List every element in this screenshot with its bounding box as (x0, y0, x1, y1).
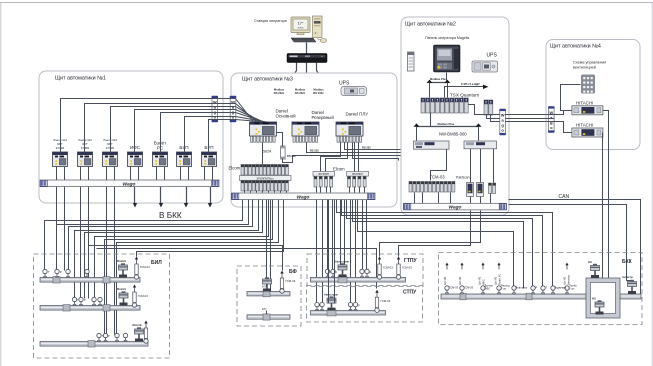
svg-text:Modbus Plus: Modbus Plus (430, 77, 447, 81)
PakScan unit 1 (467, 183, 474, 197)
svg-text:Основной: Основной (276, 114, 297, 119)
bridge NW-BM85 left (414, 141, 450, 149)
svg-text:ФГУ: ФГУ (262, 308, 267, 311)
wires terminals to bus panel2 (415, 193, 491, 204)
wire Magelis to MBP trunk (446, 73, 448, 81)
sensors pipe БИЛ2 (72, 297, 76, 305)
svg-text:Щит автоматики №2: Щит автоматики №2 (405, 22, 456, 28)
wire bundle long runs to БКК sensors (337, 200, 553, 289)
dashed box СТПУ (307, 286, 423, 323)
sensors pipe БИЛ3 (97, 333, 101, 341)
svg-text:ЭЛОК: ЭЛОК (298, 28, 305, 30)
svg-text:К ХПч-5 в ЦДУ: К ХПч-5 в ЦДУ (461, 82, 480, 86)
wire bundle panel3 bus to ГТПУ СТПУ sensors (317, 200, 367, 304)
frame left rule (0, 3, 2, 366)
device Линия №1 RFT 9739R (53, 152, 68, 167)
svg-text:ГСМ-03: ГСМ-03 (138, 294, 148, 298)
svg-text:Антистр.: Антистр. (567, 274, 571, 285)
svg-text:Modbus Plus: Modbus Plus (438, 122, 455, 126)
meter ГСМ-03 БФ (280, 271, 296, 294)
wire HITACHI1 to BKK riser (603, 111, 609, 278)
svg-text:ФГУ: ФГУ (262, 286, 267, 289)
svg-text:Р: Р (108, 334, 110, 338)
wire bus2 to Влагомер (358, 200, 514, 286)
wire switch to Daniel Rez (306, 63, 308, 123)
svg-text:Р: Р (84, 298, 86, 302)
label Modbus RS232 x3 (274, 88, 324, 95)
device Линия №2 RFT 9739R (78, 152, 93, 167)
svg-text:Р: Р (370, 271, 372, 275)
terminal pair right panel2 (489, 183, 496, 194)
svg-text:Rotork: Rotork (117, 259, 126, 263)
svg-text:ЗРУ8\ПМТ8ол: ЗРУ8\ПМТ8ол (256, 176, 273, 180)
terminal row Elcom group1 upper (241, 165, 290, 176)
svg-text:БКК: БКК (622, 259, 633, 265)
valve СТПУ (324, 293, 338, 311)
wires Elcom to bus panel3 (245, 187, 365, 193)
svg-text:Шл М1: Шл М1 (563, 276, 567, 285)
svg-text:2 шт.: 2 шт. (501, 287, 507, 291)
wire Daniel Osn to 582A to BM85 (277, 133, 414, 163)
svg-text:Антистр.: Антистр. (622, 275, 634, 279)
rotated labels БКК (443, 274, 571, 285)
panel: Щит автоматики №3 (231, 73, 397, 207)
pipe СТПУ (311, 310, 386, 316)
svg-text:Станция оператора: Станция оператора (254, 19, 287, 23)
device Daniel Резервный (292, 122, 319, 136)
svg-text:ГСМ-03: ГСМ-03 (449, 286, 459, 290)
БКК prover loop frame (586, 278, 620, 318)
coupler Wago vertical panel4 (548, 106, 555, 133)
svg-text:Щит автоматики №4: Щит автоматики №4 (550, 44, 601, 50)
svg-text:ГСМ-03: ГСМ-03 (383, 266, 393, 270)
sensors СТПУ (315, 302, 319, 310)
svg-text:ГСМ-03: ГСМ-03 (430, 174, 445, 179)
svg-text:Шл М1: Шл М1 (478, 276, 482, 285)
wire band to БИЛ meter pipe1 (137, 200, 284, 257)
svg-text:RS 232: RS 232 (310, 148, 319, 152)
bus Wago horizontal panel1 (40, 180, 219, 187)
wire Daniel PLU aux port down (353, 143, 399, 161)
svg-text:Wago: Wago (123, 181, 136, 187)
svg-text:Щит автоматики №3: Щит автоматики №3 (242, 77, 293, 83)
panel: Щит автоматики №4 (546, 40, 640, 150)
valve Rotork БИЛ3 (133, 323, 144, 342)
PLC rack TSX Quantum group1 (421, 98, 468, 113)
device labels row panel1 (52, 138, 117, 150)
svg-text:RS 232c: RS 232c (313, 91, 324, 95)
svg-text:Резервный: Резервный (312, 115, 335, 120)
svg-text:Rotork: Rotork (133, 323, 142, 327)
svg-text:БФ: БФ (289, 269, 298, 275)
wire PC to switch (306, 43, 308, 54)
meter ГСМ-03 БИЛ2 (132, 285, 148, 308)
device Daniel ПЛУ (336, 122, 363, 136)
wire bundle panel3 bus to БФ valve (267, 200, 271, 290)
panel: Щит автоматики №2 (401, 17, 509, 215)
pipe БИЛ 3 (40, 341, 148, 347)
valve Rotork БИЛ1 (117, 259, 128, 278)
meter ГСМ-03 БИЛ1 (134, 257, 150, 280)
svg-text:ГСМ-03: ГСМ-03 (140, 265, 150, 269)
svg-text:вентиляцией: вентиляцией (573, 66, 596, 70)
svg-text:Wago: Wago (297, 194, 310, 200)
svg-text:Daniel ПЛУ: Daniel ПЛУ (346, 112, 369, 117)
svg-text:Схема управления: Схема управления (573, 61, 606, 65)
operator PC monitor (291, 17, 310, 35)
valve ГТПУ (335, 260, 349, 278)
meter ГСМ-03 СТПУ (375, 290, 391, 313)
svg-text:Задвижка: Задвижка (555, 286, 567, 290)
wire CAN 1 (509, 200, 641, 297)
valve БФ1 (262, 277, 272, 291)
flanges БКК (460, 293, 466, 300)
device ИФС (128, 152, 143, 167)
barrier 582A (281, 146, 286, 159)
svg-text:СТПУ: СТПУ (403, 290, 417, 296)
svg-text:Р: Р (536, 286, 538, 290)
wire bundle panel3 bus to БИЛ L-runs (45, 200, 279, 335)
terminal strip Elcom group2 (313, 172, 335, 188)
svg-text:ИФС: ИФС (130, 145, 141, 150)
device Daniel Основной (250, 122, 277, 136)
pipe БФ 1 (247, 291, 290, 297)
svg-text:Влагомер: Влагомер (516, 286, 528, 290)
bridge NW-BM85 right (464, 141, 497, 149)
wire Daniel PLU to BM85 (345, 143, 414, 150)
svg-text:ГТПУ: ГТПУ (404, 258, 417, 264)
wire vent icon loop (561, 85, 581, 111)
svg-text:TSX Quantum: TSX Quantum (450, 93, 479, 98)
coupler Wago vertical panel1 (212, 96, 219, 123)
svg-text:Р: Р (336, 271, 338, 275)
svg-text:ГСМ-03: ГСМ-03 (381, 299, 391, 303)
svg-text:ГСМ-03: ГСМ-03 (464, 286, 474, 290)
PLC rack TSX Quantum group2 (484, 100, 493, 115)
wire band to СТПУ meter (97, 249, 377, 289)
svg-text:Шл М2: Шл М2 (443, 276, 447, 285)
sensors ГТПУ (325, 269, 329, 277)
svg-text:Wago: Wago (449, 205, 462, 211)
valve Rotork БИЛ2 (117, 287, 128, 306)
MBP trunk 2 (414, 123, 482, 140)
wires СТПУ valve (329, 200, 335, 304)
HMI Magelis (434, 45, 461, 72)
valve НЗ top loop (588, 260, 600, 278)
svg-text:RS 232: RS 232 (362, 146, 371, 150)
pipe ГТПУ (311, 277, 406, 283)
wires bridge right down to PakScan and terminals (431, 149, 494, 183)
svg-text:HITACHI: HITACHI (576, 100, 593, 105)
svg-text:582A: 582A (263, 150, 272, 154)
wires Daniel PLU legs to Elcom groups (321, 143, 359, 177)
terminal strip Elcom group3 (347, 172, 369, 188)
UPS unit panel3 (341, 87, 367, 96)
wires coupler to Daniel Osn fan (236, 99, 273, 123)
svg-text:Р: Р (358, 304, 360, 308)
svg-text:Шл М2: Шл М2 (458, 276, 462, 285)
svg-text:Р: Р (60, 270, 62, 274)
pipe БКК exit right (620, 294, 641, 299)
svg-text:НЗ: НЗ (588, 260, 592, 264)
coupler Wago vertical panel2 (499, 109, 506, 136)
wires panel1 devices through Wago couplers (61, 99, 236, 153)
bus Wago horizontal panel2 (404, 203, 507, 210)
wire Daniel Rez to BM85 (307, 143, 414, 153)
sensors pipe БИЛ1 (43, 269, 47, 277)
wires panel1 devices down through bus (57, 187, 115, 335)
pipe БКК main (441, 294, 586, 299)
arrows В БКК x4 (133, 187, 212, 208)
wires PakScan down to ГТПУ meters (380, 211, 481, 257)
wire band to БФ meter (89, 246, 283, 271)
device БУП 1 (177, 152, 192, 167)
svg-text:RS 232c: RS 232c (274, 91, 285, 95)
svg-text:Щит автоматики №1: Щит автоматики №1 (55, 76, 106, 82)
svg-text:Rotork: Rotork (117, 287, 126, 291)
dashed box ГТПУ (307, 254, 423, 287)
ethernet switch (287, 54, 327, 63)
terminal strip Elcom group1 bar (240, 176, 292, 181)
svg-text:NW-BM85-000: NW-BM85-000 (439, 132, 467, 137)
labels БКК sensors (449, 284, 577, 291)
wire switch to Daniel PLU (317, 63, 348, 123)
operator PC tower (313, 16, 323, 38)
wire CAN 2 (509, 205, 633, 285)
svg-text:Автострем: Автострем (335, 260, 349, 264)
wire HITACHI2 to BKK riser (600, 133, 603, 300)
PakScan unit 2 (477, 183, 484, 197)
svg-text:В БКК: В БКК (159, 211, 182, 220)
relay device left panel2 (408, 52, 415, 71)
bus Wago horizontal panel3 (232, 193, 376, 200)
drive HITACHI 2 (572, 128, 603, 137)
frame right rule (651, 3, 653, 366)
svg-text:Elcom: Elcom (229, 166, 241, 171)
device Взлёт РС (153, 152, 168, 167)
vent control matrix icon (581, 75, 595, 94)
frame top rule (0, 2, 653, 4)
sensor Антистрем on exit (622, 275, 637, 294)
meter ГСМ-03 БИЛ3 (144, 321, 148, 344)
device БУП 2 (202, 152, 217, 167)
valve БФ2 stub (262, 308, 267, 315)
terminal row ГСМ-03 panel2 (409, 182, 455, 193)
svg-text:Elcom: Elcom (333, 167, 345, 172)
wire Daniel Osn legs to Elcom (262, 143, 264, 165)
wires coupler panel2 to coupler panel4 (506, 115, 555, 122)
svg-text:ИФС: ИФС (485, 287, 491, 291)
svg-text:Шл М1: Шл М1 (494, 276, 498, 285)
valve НЗ bottom loop (592, 297, 604, 315)
dashed box БИЛ (34, 254, 170, 358)
wire rack to MBP trunk2 (430, 113, 432, 127)
pipe БИЛ 1 (40, 277, 140, 283)
svg-text:RS 232: RS 232 (287, 154, 296, 158)
panel: Щит автоматики №1 (39, 71, 223, 203)
dashed box БФ (237, 266, 301, 326)
svg-text:RS 232c: RS 232c (295, 91, 306, 95)
device legs to bus panel1 (57, 167, 213, 181)
svg-text:ГСМ-03: ГСМ-03 (402, 266, 412, 270)
svg-text:2 шт.: 2 шт. (569, 287, 575, 291)
wires rack to coupler panel2 (469, 105, 500, 122)
svg-text:Взлёт РС: Взлёт РС (498, 274, 502, 285)
operator PC keyboard (291, 38, 316, 42)
dashed box БКК (439, 253, 643, 325)
svg-text:НЗ: НЗ (592, 297, 596, 301)
pipe БФ 2 (247, 314, 290, 320)
svg-text:UPS: UPS (487, 53, 498, 59)
meter ГСМ-03 ГТПУ 1 (377, 257, 393, 280)
wire switch to Daniel Osn (267, 63, 297, 123)
up arrows БКК (445, 263, 448, 270)
coupler Wago vertical panel3 (230, 96, 237, 123)
meter ГСМ-03 ГТПУ 2 (396, 257, 412, 280)
svg-text:ГСМ-03: ГСМ-03 (286, 279, 296, 283)
svg-text:БИЛ: БИЛ (151, 260, 162, 266)
device Линия №3 RFT 9739R (103, 152, 118, 167)
terminal row Elcom group1 lower (241, 181, 288, 192)
svg-text:17": 17" (298, 21, 304, 26)
svg-text:Автострем: Автострем (324, 293, 338, 297)
wires coupler panel4 to drives (555, 111, 572, 133)
operator PC mouse (317, 39, 327, 43)
svg-text:PakScan: PakScan (456, 176, 470, 180)
drive HITACHI 1 (572, 106, 603, 115)
UPS unit panel2 (472, 61, 498, 72)
svg-text:ЗРУ8ПМТ: ЗРУ8ПМТ (352, 173, 364, 176)
svg-text:Панель оператора Magelis: Панель оператора Magelis (425, 36, 469, 40)
svg-text:ЗРУ8ПМТ: ЗРУ8ПМТ (318, 173, 330, 176)
sensors БКК (445, 286, 449, 294)
MBP trunk 1 (427, 80, 451, 98)
svg-text:UPS: UPS (339, 81, 350, 87)
svg-text:HITACHI: HITACHI (576, 123, 593, 128)
pipe БИЛ 2 (40, 305, 140, 311)
